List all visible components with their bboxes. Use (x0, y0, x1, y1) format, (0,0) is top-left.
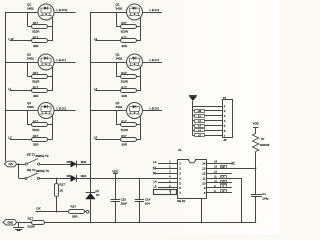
wire VDD rail to Q1 source (6, 12, 39, 14)
power VDD (R7) (253, 122, 259, 134)
no-connect pin3 (153, 172, 156, 175)
wire gate vertical (52, 115, 54, 139)
transistor Q1 (col1 row1) AO3401 (38, 4, 54, 20)
svg-text:L3: L3 (153, 160, 157, 164)
resistor R17 1K (55, 178, 59, 211)
net label box L1 (pin 9) (221, 185, 227, 189)
label R17 30R (121, 36, 128, 48)
svg-text:R17: R17 (33, 86, 39, 90)
junction col2 rail diode feed (90, 163, 92, 179)
resistor R17 510R (32, 123, 48, 127)
wire 30R to gate line (48, 90, 53, 92)
wire gate pull-up branch (28, 111, 32, 126)
svg-text:R17: R17 (121, 21, 127, 25)
label Q1 3401 (27, 2, 34, 10)
net label box L5 (P1 pin 7) (195, 134, 205, 138)
svg-text:L1: L1 (8, 87, 12, 91)
junction CK / R17 (56, 211, 58, 213)
pin 3 P1 (193, 114, 226, 118)
switch KE T1 (25, 159, 40, 165)
svg-text:M24: M24 (81, 174, 87, 178)
net label box L2 (P1 pin 4) (195, 120, 205, 123)
node LED5 (150, 107, 160, 111)
pin 13 U1 (202, 167, 255, 171)
wire resistor to gate line (136, 124, 141, 126)
wire 30R to gate line (136, 40, 141, 42)
resistor R17 30R (32, 138, 48, 142)
pin 7 U1 (169, 191, 181, 195)
node L4 (94, 87, 98, 91)
power port GND (3, 219, 17, 225)
capacitor C14 104 (135, 178, 144, 222)
label C14 104 (145, 198, 151, 206)
svg-text:R17: R17 (33, 36, 39, 40)
capacitor C1 104p (251, 195, 262, 223)
svg-text:104p: 104p (262, 196, 269, 200)
pin 8 U1 (204, 191, 232, 195)
svg-text:R17: R17 (33, 134, 39, 138)
net label box L0 (pin 10) (221, 181, 227, 184)
svg-text:3401: 3401 (27, 56, 34, 60)
wire drain to net LED5 (143, 110, 163, 112)
label connector function (224, 138, 227, 142)
node L4 (pin5) (154, 180, 158, 184)
pin 12 U1 (202, 172, 232, 176)
label R7 100K (260, 137, 270, 147)
svg-text:3401: 3401 (27, 105, 34, 109)
resistor R17 510R (GND) (32, 221, 45, 225)
pin 4 U1 (169, 176, 181, 180)
wire control net L2 (10, 139, 32, 141)
no-connect pin14 (232, 162, 235, 165)
label Q1 3401 (116, 2, 123, 10)
svg-text:30R: 30R (122, 143, 128, 147)
junction R7 LW (255, 167, 257, 169)
svg-text:14: 14 (202, 162, 206, 166)
svg-text:R17: R17 (121, 134, 127, 138)
wire U1 bottom to ground bus (201, 199, 203, 223)
resistor R17 30R (32, 89, 48, 93)
pin 6 P1 (193, 129, 226, 133)
diode D5 M24 (71, 175, 77, 182)
svg-text:M24: M24 (81, 160, 87, 164)
wire VDD rail to Q4 source (91, 12, 127, 14)
op-amp U1 KE S1 body (178, 160, 207, 199)
svg-text:U1: U1 (178, 148, 182, 152)
svg-text:R17: R17 (121, 71, 127, 75)
pin 5 P1 (193, 124, 226, 128)
wire control net L1 (10, 90, 32, 92)
power VDD (112, 169, 118, 178)
pin 2 P1 (193, 109, 226, 113)
label R17 510R (32, 71, 40, 83)
svg-text:12: 12 (202, 172, 206, 176)
power port 12V (4, 161, 16, 167)
svg-text:30R: 30R (33, 44, 39, 48)
label Q1 3401 (116, 101, 123, 109)
label Q1 3401 (27, 52, 34, 60)
wire drain to net LEDW (54, 12, 76, 14)
svg-text:L2: L2 (8, 136, 12, 140)
svg-text:30R: 30R (33, 94, 39, 98)
svg-text:510R: 510R (32, 80, 40, 84)
svg-text:KE S1: KE S1 (177, 199, 186, 203)
svg-text:R7: R7 (261, 137, 265, 141)
resistor R17 510R (121, 25, 137, 29)
node L2 (8, 136, 12, 140)
label KE T0 (27, 168, 49, 173)
pin 14 U1 (202, 162, 232, 166)
svg-text:30R: 30R (122, 44, 128, 48)
svg-text:30R: 30R (72, 215, 78, 219)
wire drain to net LED3 (143, 12, 163, 14)
label Q1 3401 (27, 101, 34, 109)
pin 7 P1 (193, 134, 226, 138)
node LED4 (150, 58, 160, 62)
wire CK down to ground bus (241, 178, 243, 222)
svg-text:LED1: LED1 (57, 58, 67, 62)
resistor R7 100K (253, 134, 259, 152)
node LED3 (150, 8, 160, 12)
label R17 510R (121, 120, 129, 132)
svg-text:VDD: VDD (253, 122, 259, 126)
svg-text:510R: 510R (32, 128, 40, 132)
svg-text:510R: 510R (28, 224, 36, 228)
svg-text:10: 10 (202, 181, 206, 185)
svg-text:510R: 510R (121, 30, 129, 34)
wire resistor to gate line (48, 26, 53, 28)
net label box L1 (P1 pin 3) (195, 115, 205, 118)
svg-text:L4: L4 (154, 180, 158, 184)
svg-text:3401: 3401 (116, 56, 123, 60)
wire 12V rail column 1 (5, 12, 7, 162)
net label box CK (pin 11) (221, 176, 227, 179)
label R17 510R (32, 120, 40, 132)
svg-text:104: 104 (145, 201, 150, 205)
resistor R17 510R (32, 75, 48, 79)
net label box LW (pin 13) (221, 166, 227, 169)
label D5 M24 (67, 174, 87, 178)
wire VDD rail to Q3 source (6, 110, 39, 112)
wire control net L4 (95, 90, 120, 92)
svg-text:L5: L5 (94, 136, 98, 140)
label R17 510R (32, 21, 40, 33)
wire gate pull-up branch (28, 12, 32, 27)
wire VDD rail to Q2 source (6, 62, 39, 64)
node L3 (pin1) (153, 160, 157, 164)
net label box L2 (pin 8) (221, 190, 227, 194)
pin 5 U1 (158, 181, 181, 185)
transistor Q1 (col1 row2) AO3401 (38, 54, 54, 70)
wire D5 to rail / VDD run to U1 pin4 (77, 178, 178, 180)
pin 3 U1 (155, 172, 181, 176)
pin 2 U1 (155, 167, 181, 171)
svg-text:R17: R17 (121, 86, 127, 90)
svg-text:CK: CK (36, 206, 40, 210)
wire control net L3 (95, 40, 120, 42)
transistor Q1 (col2 row3) AO3401 (127, 103, 143, 119)
svg-text:3401: 3401 (116, 6, 123, 10)
wire GND to 510R (17, 222, 32, 224)
svg-text:R17: R17 (59, 183, 65, 187)
wire 30R to gate line (136, 139, 141, 141)
svg-text:KE T0: KE T0 (27, 168, 36, 172)
label R17 30R (33, 36, 40, 48)
label R17 30R (33, 86, 40, 98)
wire switch2 to D5 (40, 178, 71, 180)
junction col1 rail row3 (5, 110, 7, 112)
node LED2 (57, 107, 67, 111)
wire D6 to rail (77, 164, 91, 166)
svg-text:L4: L4 (94, 87, 98, 91)
junction col2 rail row3 (90, 110, 92, 112)
svg-text:L3: L3 (94, 37, 98, 41)
net label box LW (P1 pin 2) (195, 110, 205, 113)
label R17 510R (GND) (28, 216, 36, 228)
svg-text:13: 13 (202, 167, 206, 171)
node L5 (94, 136, 98, 140)
junction U1 ground (201, 221, 203, 223)
resistor R17 510R (32, 25, 48, 29)
wire resistor to gate line (136, 26, 141, 28)
svg-text:D6: D6 (67, 160, 71, 164)
label R17 510R (121, 21, 129, 33)
diode D6 M24 (71, 161, 77, 168)
junction 12V branch (18, 163, 20, 165)
svg-text:###KE T0: ###KE T0 (36, 154, 49, 158)
svg-text:11: 11 (202, 176, 205, 180)
svg-text:LED2: LED2 (57, 107, 67, 111)
svg-text:R17: R17 (28, 216, 34, 220)
junction col1 rail row2 (5, 61, 7, 63)
wire resistor to gate line (48, 76, 53, 78)
junction C14 (138, 178, 140, 223)
wire ground bus (45, 222, 257, 224)
zener diode D1 3V (85, 193, 95, 223)
port box pin7 (154, 190, 177, 195)
wire gate vertical (140, 115, 142, 139)
wire 30R to gate line (48, 40, 53, 42)
svg-text:22uF: 22uF (121, 201, 128, 205)
svg-text:GND: GND (7, 220, 13, 224)
resistor R17 30R (121, 39, 137, 43)
wire gate vertical (140, 17, 142, 41)
terminal circle CK (86, 210, 89, 213)
svg-text:R17: R17 (121, 120, 127, 124)
wire control net L W (10, 40, 32, 42)
label C13 22uF (121, 197, 128, 205)
wire CK (36, 211, 69, 213)
wire switch1 to D6 (40, 164, 71, 166)
label R17 30R (CK) (71, 204, 79, 218)
resistor R17 30R (32, 39, 48, 43)
label Q1 3401 (116, 52, 123, 60)
svg-text:1K: 1K (59, 189, 63, 193)
antenna (189, 96, 197, 136)
pin 4 P1 (193, 119, 226, 123)
svg-text:R17: R17 (71, 204, 77, 208)
wire drain to net LED2 (54, 110, 76, 112)
svg-text:R17: R17 (33, 120, 39, 124)
node LEDW (57, 8, 68, 12)
wire gate pull-up branch (116, 12, 120, 27)
wire 12V to switches (17, 164, 26, 179)
wire drain to net LED4 (143, 62, 163, 64)
svg-text:R17: R17 (121, 36, 127, 40)
pin 11 U1 (202, 176, 241, 180)
svg-text:3V: 3V (96, 193, 100, 197)
label D6 M24 (67, 160, 87, 164)
transistor Q1 (col2 row1) AO3401 (127, 4, 143, 20)
label D1 3V (96, 189, 100, 197)
label P1 (223, 96, 227, 100)
svg-text:12V: 12V (8, 162, 13, 166)
junction C13 (115, 178, 117, 223)
resistor R17 30R (121, 89, 137, 93)
svg-text:R17: R17 (33, 21, 39, 25)
node L5 (pin6) (154, 184, 158, 188)
svg-text:###KE T0: ###KE T0 (36, 169, 49, 173)
label R17 510R (121, 71, 129, 83)
wire gate pull-up branch (116, 62, 120, 77)
svg-text:510R: 510R (121, 128, 129, 132)
wire gate vertical (52, 67, 54, 91)
wire 30R to terminal (85, 211, 87, 213)
label R17 30R (121, 134, 128, 146)
ground (13, 222, 24, 230)
wire resistor to gate line (136, 76, 141, 78)
net label box L3 (P1 pin 5) (195, 125, 205, 128)
svg-text:3401: 3401 (27, 6, 34, 10)
wire gate pull-up branch (28, 62, 32, 77)
svg-text:R17: R17 (33, 71, 39, 75)
transistor Q1 (col1 row3) AO3401 (38, 103, 54, 119)
node L3 (94, 37, 98, 41)
pin 6 U1 (158, 186, 181, 190)
connector P1 body (223, 100, 233, 138)
net label box L4 (P1 pin 6) (195, 129, 205, 133)
pin 1 P1 (193, 104, 226, 108)
resistor R17 510R (121, 75, 137, 79)
node CK (36, 206, 40, 210)
pin 10 U1 (202, 181, 232, 185)
svg-text:KE T1: KE T1 (27, 153, 36, 157)
node LED1 (57, 58, 67, 62)
svg-text:D6: D6 (67, 174, 71, 178)
svg-text:3401: 3401 (116, 105, 123, 109)
wire 30R to gate line (48, 139, 53, 141)
svg-text:30R: 30R (33, 143, 39, 147)
svg-text:510R: 510R (121, 80, 129, 84)
wire 30R to gate line (136, 90, 141, 92)
resistor R17 30R (121, 138, 137, 142)
label R17 1K (59, 183, 65, 193)
wire gate pull-up branch (116, 111, 120, 126)
label R17 30R (33, 134, 40, 146)
svg-text:L W: L W (8, 37, 13, 41)
svg-text:LED4: LED4 (150, 58, 160, 62)
transistor Q1 (col2 row2) AO3401 (127, 54, 143, 70)
wire resistor to gate line (48, 124, 53, 126)
junction R17 top (56, 178, 58, 180)
junction col2 rail row2 (90, 61, 92, 63)
wire R7 to LW net (255, 152, 257, 195)
label R17 30R (121, 86, 128, 98)
label C1 104p (262, 192, 269, 200)
resistor R17 30R (CK) (69, 210, 85, 214)
wire gate vertical (52, 17, 54, 41)
capacitor C13 22uF (111, 178, 120, 222)
svg-text:L5: L5 (154, 184, 158, 188)
wire drain to net LED1 (54, 62, 76, 64)
no-connect pin2 (153, 167, 156, 170)
label KE T1 (27, 153, 49, 158)
wire switched rail column 2 (90, 12, 92, 193)
wire VDD rail to Q6 source (91, 110, 127, 112)
label U1 (178, 148, 182, 152)
wire VDD rail to Q5 source (91, 62, 127, 64)
svg-text:P1: P1 (223, 96, 227, 100)
switch KE T0 (25, 173, 40, 179)
wire control net L5 (95, 139, 120, 141)
label KE S1 (177, 199, 186, 203)
svg-text:CK: CK (221, 177, 225, 179)
node L1 (8, 87, 12, 91)
wire gate vertical (140, 67, 142, 91)
svg-text:VDD: VDD (112, 169, 118, 173)
svg-text:LED3: LED3 (150, 8, 160, 12)
svg-text:LED5: LED5 (150, 107, 160, 111)
svg-text:510R: 510R (32, 30, 40, 34)
pin 9 U1 (204, 186, 232, 190)
pin 1 U1 (158, 162, 181, 166)
svg-text:100K##: 100K## (260, 143, 270, 147)
svg-text:30R: 30R (122, 94, 128, 98)
svg-text:LEDW: LEDW (57, 8, 68, 12)
resistor R17 510R (121, 123, 137, 127)
node L W (8, 37, 13, 41)
junction CK ground (241, 221, 243, 223)
